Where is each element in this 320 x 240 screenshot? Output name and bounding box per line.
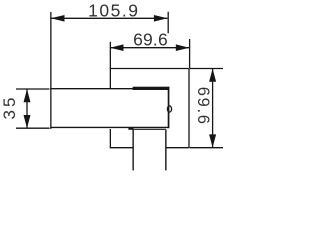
dimension 35 top extension — [16, 88, 50, 90]
wall plate top edge — [110, 68, 189, 70]
svg-text:35: 35 — [0, 95, 19, 120]
svg-text:69.6: 69.6 — [194, 87, 212, 126]
arrow 105.9 left — [51, 15, 65, 22]
wall plate bottom edge left part — [110, 147, 133, 149]
arrow 69.6 top right — [176, 44, 190, 51]
arrow 69.6 right up — [209, 69, 216, 82]
arm bottom edge — [50, 126, 169, 128]
dimension 69.6 top left extension — [109, 42, 111, 68]
arm top edge thin — [50, 88, 133, 90]
dimension 69.6 top line — [110, 47, 189, 49]
arrow 69.6 right down — [209, 134, 216, 147]
svg-text:105.9: 105.9 — [88, 0, 139, 20]
dimension 69.6 right line — [212, 69, 214, 148]
dimension 35 line — [26, 89, 28, 128]
holder knob ellipse — [167, 106, 171, 112]
arm right edge thick — [168, 87, 170, 129]
arrow 35 up — [24, 89, 31, 102]
dimension 35 bottom extension — [16, 127, 50, 129]
svg-text:69.6: 69.6 — [133, 29, 168, 49]
arm top edge thick — [133, 87, 170, 90]
wall plate right edge — [188, 69, 190, 148]
wall plate left edge lower — [109, 129, 111, 148]
dimension 69.6 top right extension — [189, 39, 191, 68]
arrow 105.9 right — [154, 15, 168, 22]
arrow 69.6 top left — [110, 44, 124, 51]
arrow 35 down — [24, 115, 31, 128]
wall plate bottom edge right part — [166, 147, 189, 149]
dimension 69.6 right top extension — [190, 68, 224, 70]
dimension 105.9 line — [51, 17, 167, 19]
holder bottom line — [134, 128, 166, 130]
hose pipe right edge — [165, 130, 167, 171]
holder corner patch — [128, 127, 133, 130]
hose pipe left edge — [132, 128, 134, 170]
wall plate left edge upper — [109, 69, 111, 89]
dimension 105.9 left extension / arm left edge — [50, 12, 52, 129]
dimension 69.6 right bottom extension — [190, 147, 224, 149]
dimension 105.9 right extension — [167, 12, 169, 34]
